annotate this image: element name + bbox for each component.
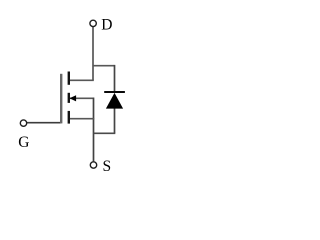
channel bar body segment — [68, 93, 70, 103]
wire source stub from MOSFET — [69, 118, 95, 120]
wire diode bottom return — [94, 132, 116, 134]
diode D1 cathode bar — [104, 91, 125, 93]
svg-text:G: G — [18, 134, 29, 151]
wire diode anode vertical — [114, 108, 116, 134]
wire gate from G terminal — [27, 122, 61, 124]
terminal S circle — [90, 162, 96, 168]
channel bar source segment — [68, 111, 70, 124]
body arrowhead pointing into channel — [69, 95, 76, 101]
diode D1 anode triangle — [106, 93, 123, 109]
channel bar drain segment — [68, 72, 70, 85]
terminal G circle — [20, 120, 26, 126]
wire drain stub to MOSFET — [69, 79, 94, 81]
wire drain vertical from D terminal — [92, 27, 94, 81]
terminal D circle — [90, 20, 96, 26]
wire branch to body diode top — [93, 65, 115, 67]
wire source vertical down to S terminal — [93, 98, 95, 162]
svg-text:S: S — [103, 158, 112, 175]
gate electrode line — [60, 74, 62, 124]
wire body connection shaft — [70, 97, 94, 99]
wire diode cathode vertical — [114, 65, 116, 92]
svg-text:D: D — [101, 16, 112, 33]
